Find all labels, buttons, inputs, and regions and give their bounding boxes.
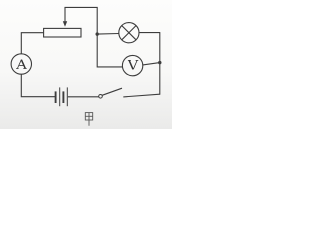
- wire right side vertical: [159, 32, 161, 95]
- battery B: [56, 87, 68, 106]
- lamp L: [119, 23, 139, 43]
- wiper arrow of rheostat: [63, 7, 67, 26]
- switch S (open): [99, 88, 160, 98]
- wire voltmeter right to node B: [143, 63, 160, 65]
- label V (voltmeter letter): [128, 60, 138, 69]
- wire rheostat left terminal to ammeter: [21, 33, 43, 54]
- label 甲 (figure label): [85, 113, 92, 126]
- node B junction dot: [158, 61, 161, 64]
- node A junction dot: [96, 32, 99, 35]
- wire node A to lamp left: [97, 33, 119, 36]
- voltmeter V: [122, 55, 142, 75]
- ammeter A: [11, 54, 31, 74]
- wire ammeter bottom to battery: [21, 74, 55, 97]
- rheostat R (resistor box): [44, 28, 81, 37]
- wire node A down and to voltmeter left: [97, 34, 122, 67]
- wire battery to switch: [68, 96, 99, 98]
- label A (ammeter letter): [16, 60, 27, 69]
- wire lamp right: [139, 32, 160, 34]
- wire wiper-top: up, right, down to node A: [64, 7, 97, 33]
